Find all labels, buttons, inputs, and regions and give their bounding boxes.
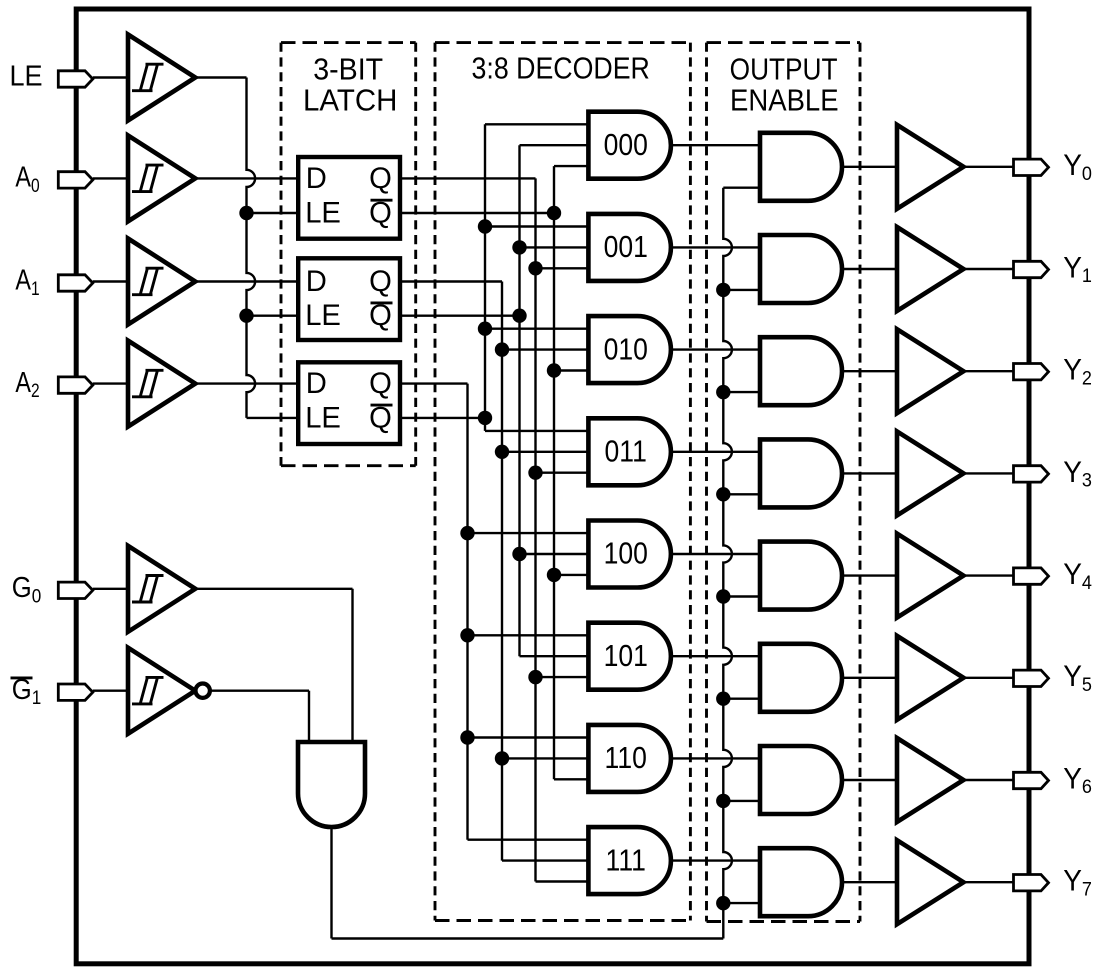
bus vertical Q1bar — [518, 145, 520, 656]
wire Q1 to gate 110 input 2 — [502, 757, 588, 759]
wire NQ0 to gate 000 input 3 — [554, 165, 588, 167]
hysteresis symbol A1 — [132, 268, 164, 295]
svg-text:3-BIT: 3-BIT — [313, 53, 383, 87]
svg-text:OUTPUT: OUTPUT — [730, 53, 838, 87]
svg-text:010: 010 — [604, 333, 648, 367]
3:8 decoder dashed box — [435, 41, 690, 44]
wire G1 pin to buffer — [93, 690, 128, 692]
wire buffer to Y3 pin — [964, 472, 1014, 474]
wire OE gate 4 to buffer — [842, 574, 897, 576]
junction enable tap OE gate 2 — [716, 385, 730, 399]
svg-text:001: 001 — [604, 230, 648, 264]
output pin Y1 — [1014, 261, 1049, 277]
latch U2 Qbar overbar — [371, 301, 393, 304]
svg-text:Q: Q — [369, 197, 392, 229]
wire gate 011 output to OE gate 3 — [671, 451, 760, 453]
wire Q0bar row — [400, 212, 554, 214]
decoder AND gate 111 — [588, 827, 670, 894]
wire Q1 to gate 111 input 2 — [502, 859, 588, 861]
junction enable tap OE gate 1 — [716, 283, 730, 297]
LE vertical distribution line with crossover hops — [247, 78, 256, 418]
wire NQ0 to gate 110 input 3 — [554, 778, 588, 780]
schmitt buffer LE — [128, 35, 195, 121]
svg-text:LE: LE — [305, 197, 341, 229]
hysteresis symbol G0 — [132, 576, 164, 603]
wire enable to OE gate 1 — [723, 289, 760, 291]
output buffer Y0 — [897, 125, 964, 209]
junction Q0 tap gate 101 — [528, 670, 542, 684]
junction enable tap OE gate 6 — [716, 794, 730, 808]
OE AND gate 6 — [760, 746, 842, 814]
input pin A1 — [58, 275, 93, 291]
wire gate 111 output to OE gate 7 — [671, 859, 760, 861]
junction dot LE to latch U2 — [239, 309, 253, 323]
wire A2 pin to buffer — [93, 382, 128, 384]
output buffer Y7 — [897, 840, 964, 924]
hysteresis symbol A0 — [132, 165, 164, 192]
output buffer Y5 — [897, 636, 964, 720]
output pin Y0 — [1014, 159, 1049, 175]
junction Q2 tap gate 100 — [460, 526, 474, 540]
junction Q0bar tap gate 010 — [547, 363, 561, 377]
wire OE gate 0 to buffer — [842, 166, 897, 168]
wire OE gate 2 to buffer — [842, 370, 897, 372]
latch U1 Qbar overbar — [371, 199, 393, 202]
junction Q2bar tap gate 001 — [478, 219, 492, 233]
wire enable AND output down — [330, 827, 332, 939]
OE AND gate 5 — [760, 644, 842, 712]
hysteresis symbol A2 — [132, 370, 164, 397]
junction Q0bar source — [547, 206, 561, 220]
output pin Y7 — [1014, 875, 1049, 891]
svg-text:LE: LE — [305, 402, 341, 434]
enable AND gate — [298, 742, 365, 827]
wire Q1 row — [400, 280, 502, 282]
wire Q1bar row — [400, 315, 520, 317]
wire enable to OE gate 6 — [723, 800, 760, 802]
wire Q2bar row — [400, 417, 485, 419]
wire enable to OE gate 5 — [723, 698, 760, 700]
wire LE to latch U2 LE input — [247, 315, 299, 317]
wire buffer to Y7 pin — [964, 881, 1014, 883]
wire enable bottom run — [332, 937, 724, 939]
wire gate 010 output to OE gate 2 — [671, 348, 760, 350]
wire NQ1 to gate 100 input 2 — [520, 553, 589, 555]
junction Q1bar tap gate 100 — [512, 547, 526, 561]
latch U1 box — [298, 157, 400, 239]
wire Q1 to gate 010 input 2 — [502, 348, 588, 350]
wire NQ2 to gate 010 input 1 — [485, 328, 588, 330]
wire A0 buffer to latch U1 D input — [195, 177, 298, 179]
wire Q2 to gate 101 input 1 — [468, 634, 589, 636]
output buffer Y2 — [897, 329, 964, 413]
wire OE gate 1 to buffer — [842, 268, 897, 270]
wire NQ1 to gate 101 input 2 — [520, 655, 589, 657]
junction Q1 tap gate 010 — [495, 342, 509, 356]
wire NQ0 to gate 010 input 3 — [554, 369, 588, 371]
OE AND gate 0 — [760, 133, 842, 201]
wire A1 buffer to latch U2 D input — [195, 280, 298, 282]
wire enable to OE gate 4 — [723, 595, 760, 597]
output pin Y5 — [1014, 670, 1049, 686]
OE AND gate 4 — [760, 542, 842, 610]
svg-text:Q: Q — [369, 300, 392, 332]
schmitt buffer G1 (inverting) — [128, 648, 195, 734]
output buffer Y4 — [897, 534, 964, 618]
svg-text:ENABLE: ENABLE — [730, 84, 839, 118]
input pin A2 — [58, 377, 93, 393]
enable vertical with crossover hops — [723, 188, 732, 939]
output pin Y4 — [1014, 568, 1049, 584]
wire gate 001 output to OE gate 1 — [671, 246, 760, 248]
wire A0 pin to buffer — [93, 177, 128, 179]
wire buffer to Y4 pin — [964, 574, 1014, 576]
wire NQ2 to gate 001 input 1 — [485, 225, 588, 227]
wire G0 buffer output — [195, 588, 352, 590]
OE AND gate 7 — [760, 848, 842, 916]
junction Q0 tap gate 001 — [528, 261, 542, 275]
overbar on G1 label — [11, 676, 33, 679]
hysteresis symbol G1 — [132, 677, 164, 704]
latch U3 box — [298, 362, 400, 444]
wire OE gate 3 to buffer — [842, 472, 897, 474]
wire gate 110 output to OE gate 6 — [671, 757, 760, 759]
input pin G1 — [58, 684, 93, 700]
junction Q0bar tap gate 100 — [547, 568, 561, 582]
output pin Y6 — [1014, 772, 1049, 788]
bus vertical Q0 — [534, 178, 536, 881]
wire OE gate 5 to buffer — [842, 677, 897, 679]
svg-text:000: 000 — [604, 128, 648, 162]
wire NQ2 to gate 000 input 1 — [485, 123, 588, 125]
wire Q0 to gate 011 input 3 — [536, 472, 589, 474]
output buffer Y6 — [897, 738, 964, 822]
wire A1 pin to buffer — [93, 280, 128, 282]
schmitt buffer A2 — [128, 341, 195, 427]
wire buffer to Y5 pin — [964, 677, 1014, 679]
junction Q1 tap gate 011 — [495, 445, 509, 459]
junction enable tap OE gate 4 — [716, 589, 730, 603]
input pin LE — [58, 71, 93, 87]
wire Q2 to gate 100 input 1 — [468, 532, 589, 534]
decoder AND gate 001 — [588, 214, 670, 281]
wire G1 drop to AND — [308, 691, 310, 742]
svg-text:D: D — [306, 266, 327, 298]
svg-text:101: 101 — [604, 639, 648, 673]
decoder AND gate 101 — [588, 623, 670, 690]
wire NQ1 to gate 001 input 2 — [520, 246, 589, 248]
wire buffer to Y6 pin — [964, 779, 1014, 781]
wire Q2 to gate 110 input 1 — [468, 736, 589, 738]
wire enable to OE gate 2 — [723, 391, 760, 393]
wire buffer to Y0 pin — [964, 166, 1014, 168]
OE AND gate 3 — [760, 439, 842, 507]
wire NQ1 to gate 000 input 2 — [520, 144, 589, 146]
svg-text:011: 011 — [605, 435, 647, 469]
svg-text:100: 100 — [604, 537, 648, 571]
wire A2 buffer to latch U3 D input — [195, 382, 298, 384]
svg-text:Q: Q — [369, 368, 392, 400]
wire buffer to Y2 pin — [964, 370, 1014, 372]
output buffer Y3 — [897, 431, 964, 515]
schmitt buffer A1 — [128, 239, 195, 325]
wire NQ2 to gate 011 input 1 — [485, 430, 588, 432]
output buffer Y1 — [897, 227, 964, 311]
wire NQ0 to gate 100 input 3 — [554, 574, 588, 576]
svg-text:Q: Q — [369, 402, 392, 434]
wire G1 inverter output — [210, 690, 309, 692]
junction dot LE to latch U1 — [239, 206, 253, 220]
svg-text:D: D — [306, 368, 327, 400]
decoder AND gate 110 — [588, 725, 670, 792]
wire Q0 to gate 001 input 3 — [536, 267, 589, 269]
latch U2 box — [298, 258, 400, 340]
wire enable to OE gate 3 — [723, 493, 760, 495]
junction Q1bar source — [512, 309, 526, 323]
wire Q0 to gate 111 input 3 — [536, 880, 589, 882]
svg-text:LE: LE — [9, 60, 42, 92]
3-bit latch dashed box — [281, 41, 416, 44]
bus vertical Q1 — [501, 282, 503, 861]
schmitt buffer A0 — [128, 135, 195, 221]
junction Q1 tap gate 110 — [495, 751, 509, 765]
svg-text:LATCH: LATCH — [303, 84, 397, 118]
wire gate 100 output to OE gate 4 — [671, 553, 760, 555]
decoder AND gate 011 — [588, 418, 670, 485]
wire Q0 row — [400, 177, 536, 179]
output pin Y3 — [1014, 466, 1049, 482]
wire enable to OE gate 0 — [723, 186, 760, 188]
svg-text:Q: Q — [369, 163, 392, 195]
wire Q1 to gate 011 input 2 — [502, 451, 588, 453]
junction Q2bar tap gate 010 — [478, 322, 492, 336]
wire gate 000 output to OE gate 0 — [671, 144, 760, 146]
junction enable tap OE gate 7 — [716, 896, 730, 910]
input pin A0 — [58, 172, 93, 188]
wire G0 pin to buffer — [93, 588, 128, 590]
wire Q2 to gate 111 input 1 — [468, 839, 589, 841]
hysteresis symbol LE — [132, 64, 164, 91]
output enable dashed box — [707, 41, 861, 44]
wire enable to OE gate 7 — [723, 902, 760, 904]
wire Q0 to gate 101 input 3 — [536, 676, 589, 678]
decoder AND gate 010 — [588, 316, 670, 383]
wire Q2 row — [400, 382, 468, 384]
decoder AND gate 100 — [588, 521, 670, 588]
wire LE to latch U1 LE input — [247, 212, 299, 214]
svg-text:111: 111 — [606, 844, 646, 878]
input pin G0 — [58, 582, 93, 598]
svg-text:D: D — [306, 163, 327, 195]
svg-text:110: 110 — [605, 741, 647, 775]
decoder AND gate 000 — [588, 112, 670, 179]
junction Q2 tap gate 101 — [460, 628, 474, 642]
junction Q2 tap gate 110 — [460, 730, 474, 744]
svg-text:LE: LE — [305, 300, 341, 332]
bus vertical Q0bar — [553, 166, 555, 779]
output pin Y2 — [1014, 364, 1049, 380]
wire OE gate 6 to buffer — [842, 779, 897, 781]
junction Q1bar tap gate 001 — [512, 240, 526, 254]
wire buffer to Y1 pin — [964, 268, 1014, 270]
wire G0 drop to AND — [351, 589, 353, 742]
junction Q0 tap gate 011 — [528, 466, 542, 480]
wire gate 101 output to OE gate 5 — [671, 655, 760, 657]
junction enable tap OE gate 3 — [716, 487, 730, 501]
svg-text:Q: Q — [369, 266, 392, 298]
wire OE gate 7 to buffer — [842, 881, 897, 883]
junction enable tap OE gate 5 — [716, 692, 730, 706]
svg-text:3:8 DECODER: 3:8 DECODER — [472, 52, 650, 86]
schmitt buffer G0 — [128, 546, 195, 632]
wire LE pin to buffer — [93, 76, 128, 78]
bus vertical Q2 — [466, 384, 468, 840]
junction Q2bar source — [478, 411, 492, 425]
OE AND gate 1 — [760, 235, 842, 303]
OE AND gate 2 — [760, 337, 842, 405]
wire LE to latch U3 LE input — [247, 417, 299, 419]
latch U3 Qbar overbar — [371, 404, 393, 407]
bus vertical Q2bar — [484, 124, 486, 431]
wire LE buffer output to LE vertical — [195, 76, 246, 78]
